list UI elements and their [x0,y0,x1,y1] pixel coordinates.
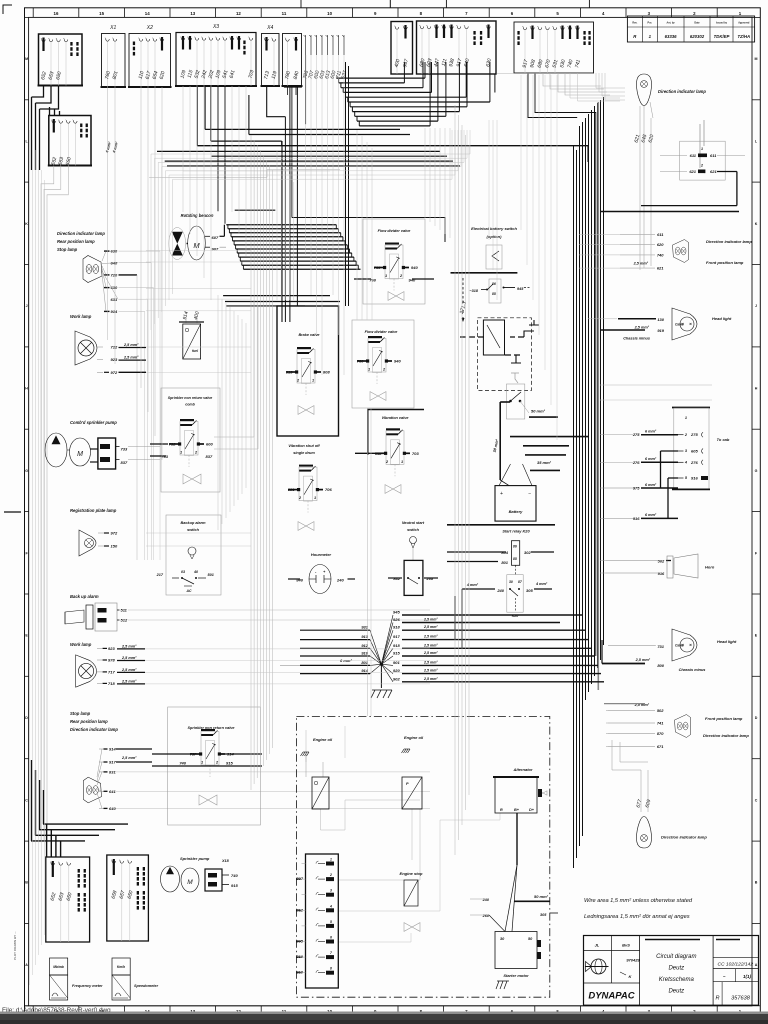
svg-text:2,5 mm²: 2,5 mm² [423,625,438,629]
svg-text:JL: JL [595,943,600,948]
starter motor [495,932,537,969]
svg-text:×: × [689,643,692,648]
black link under X4-B6 [284,86,302,88]
frequency meter box [50,958,68,975]
svg-text:972: 972 [111,531,118,536]
svg-text:Por.: Por. [648,22,653,25]
svg-text:3: 3 [330,889,332,893]
svg-text:Vibration shut off: Vibration shut off [288,444,320,448]
battery [495,486,536,521]
sprinkler non return valve bottom [168,707,261,825]
ruler top and bottom [32,8,34,18]
svg-text:2,5 mm²: 2,5 mm² [633,262,649,266]
grey verticals under B9 [424,128,426,218]
svg-text:J: J [26,304,28,308]
title block [584,936,759,1006]
svg-text:H: H [755,387,758,391]
svg-text:732: 732 [169,442,176,447]
svg-text:CC 102/122/142: CC 102/122/142 [717,961,753,967]
svg-text:Direction indicator lamp: Direction indicator lamp [658,89,706,94]
svg-text:978: 978 [108,658,115,663]
svg-text:671: 671 [657,744,664,749]
svg-text:03: 03 [181,570,185,574]
svg-text:2,5 mm²: 2,5 mm² [423,635,438,639]
svg-text:Sprinkler pump: Sprinkler pump [180,856,210,861]
svg-text:1: 1 [685,416,687,420]
svg-text:807: 807 [296,876,303,881]
svg-text:620302: 620302 [690,34,705,39]
centre mark top [389,0,391,8]
svg-text:800: 800 [657,663,664,668]
centre mark left [4,511,21,513]
svg-text:Km/h: Km/h [117,965,125,969]
svg-text:641: 641 [109,789,116,794]
svg-text:970429: 970429 [626,958,640,963]
svg-text:940: 940 [394,359,401,364]
engine box internal wires [305,730,307,762]
svg-text:918: 918 [393,643,400,648]
svg-text:Direction indicator lamp: Direction indicator lamp [57,231,105,236]
work lamp 2 [76,655,97,687]
svg-text:805: 805 [296,939,303,944]
svg-text:To cab: To cab [717,437,730,442]
connector block B1b (lower left) [49,116,91,166]
svg-text:2,5 mm²: 2,5 mm² [423,669,438,673]
svg-text:870: 870 [657,731,664,736]
svg-text:R: R [500,808,503,812]
svg-text:916: 916 [633,516,640,521]
direction indicator bottom right [637,817,652,849]
connector B6 [283,34,302,87]
svg-text:Engine stop: Engine stop [400,871,423,876]
svg-text:Head light: Head light [717,639,737,644]
head light lower wire [602,663,645,665]
svg-text:918: 918 [393,625,400,630]
svg-text:D: D [755,716,758,720]
svg-text:35 mm²: 35 mm² [537,460,552,465]
svg-text:Flow divider valve: Flow divider valve [378,229,411,233]
connector B10 [514,22,594,73]
svg-text:Ant. by: Ant. by [667,22,676,25]
head light lower [672,629,697,661]
svg-text:Engine oil: Engine oil [313,737,333,742]
svg-text:X4: X4 [266,25,273,31]
svg-text:837: 837 [206,454,213,459]
svg-text:Work lamp: Work lamp [70,314,92,319]
svg-text:915: 915 [226,761,233,766]
wire drops to diode box [703,120,705,146]
grey horizontals left [146,249,251,251]
svg-text:2,5 mm²: 2,5 mm² [121,668,137,672]
star node chassis [300,629,370,631]
wires from B1 down-left [32,86,44,98]
connector B8 [391,22,413,75]
svg-text:A: A [25,963,28,967]
bundle A staircase [336,77,425,79]
svg-text:14: 14 [145,11,150,16]
svg-text:63336: 63336 [665,34,678,39]
svg-text:1: 1 [401,460,403,464]
svg-text:718: 718 [108,681,115,686]
B6 pin drops [287,86,289,95]
svg-text:Direction indicator lamp: Direction indicator lamp [70,727,118,732]
svg-text:Front position lamp: Front position lamp [706,260,744,265]
svg-text:10: 10 [327,11,332,16]
svg-text:Direction indicator lamp: Direction indicator lamp [703,733,749,738]
svg-text:2,5 mm²: 2,5 mm² [423,618,438,622]
svg-text:Work lamp: Work lamp [70,642,92,647]
svg-text:902: 902 [393,676,400,681]
svg-text:217: 217 [156,573,164,577]
svg-text:Starter motor: Starter motor [503,973,529,978]
svg-text:×: × [689,322,692,327]
svg-text:706: 706 [325,487,332,492]
svg-text:2,5 mm²: 2,5 mm² [121,756,137,760]
svg-text:30: 30 [509,580,513,584]
svg-text:Neutral start: Neutral start [402,521,425,525]
svg-text:Kretsschema: Kretsschema [659,977,695,983]
svg-text:975: 975 [633,486,640,491]
svg-text:945: 945 [393,610,400,615]
svg-text:2,5 mm²: 2,5 mm² [121,644,137,648]
svg-text:C: C [25,798,28,802]
svg-text:512: 512 [121,618,128,623]
starter wiring [516,813,518,865]
svg-text:703: 703 [412,451,419,456]
svg-text:X3: X3 [212,24,219,30]
svg-text:16: 16 [54,11,59,16]
connector block B1 (rear frame) [39,34,83,86]
svg-text:972: 972 [111,370,118,375]
revision table [627,16,754,42]
svg-text:501: 501 [208,573,214,577]
svg-text:Rev.: Rev. [632,22,637,25]
svg-text:B: B [755,881,758,885]
svg-text:73F: 73F [190,752,197,757]
svg-text:5: 5 [330,920,332,924]
svg-text:Electrical battery switch: Electrical battery switch [471,226,517,231]
svg-text:12: 12 [236,11,241,16]
svg-text:85: 85 [492,292,496,296]
svg-text:Direction indicator lamp: Direction indicator lamp [706,239,752,244]
svg-text:2,5 mm²: 2,5 mm² [635,658,651,662]
svg-text:1: 1 [312,379,314,383]
svg-text:D+: D+ [529,808,535,812]
svg-text:85: 85 [513,557,517,561]
svg-text:X2: X2 [146,25,153,31]
svg-text:2,5 mm²: 2,5 mm² [121,656,137,660]
svg-text:760: 760 [374,265,381,270]
svg-text:760: 760 [369,278,376,283]
svg-text:926: 926 [393,617,400,622]
svg-text:M: M [755,57,758,61]
svg-text:Cable: Cable [675,323,684,327]
svg-text:J: J [755,304,757,308]
svg-text:G: G [25,469,28,473]
svg-text:1: 1 [385,274,387,278]
diode box 611-621 [680,141,726,180]
svg-text:812: 812 [296,907,303,912]
svg-text:AC: AC [186,589,192,593]
svg-text:Registration plate lamp: Registration plate lamp [70,508,117,513]
svg-text:919: 919 [657,328,664,333]
svg-text:310: 310 [296,954,303,959]
grey L mid [149,170,340,178]
svg-text:260: 260 [482,914,490,918]
svg-text:605: 605 [691,449,698,454]
svg-text:DYNAPAC: DYNAPAC [588,991,634,1002]
svg-text:150: 150 [111,544,118,549]
svg-text:2: 2 [700,164,703,168]
svg-text:Comb'd sprinkler pump: Comb'd sprinkler pump [70,420,117,425]
stop lamp group [83,777,101,803]
svg-text:6 mm²: 6 mm² [645,513,657,517]
svg-text:comb: comb [185,403,195,407]
svg-text:6: 6 [330,936,332,940]
svg-text:276: 276 [632,460,640,465]
svg-text:PLOT DRAWN BY ...: PLOT DRAWN BY ... [13,931,17,960]
connector X4 [262,34,280,87]
svg-text:915: 915 [231,883,238,888]
vibration valve [368,410,424,455]
flow divider valve 1 [363,219,425,304]
svg-text:C: C [755,798,758,802]
svg-text:945: 945 [517,287,524,291]
svg-text:50 mm²: 50 mm² [531,409,546,414]
svg-text:Cable: Cable [675,644,684,648]
svg-text:4 mm²: 4 mm² [466,583,479,587]
svg-text:840: 840 [296,578,303,583]
thick wire corner right [736,172,738,206]
svg-text:740: 740 [179,761,186,766]
svg-text:B: B [25,881,28,885]
svg-text:BvS: BvS [622,943,630,948]
svg-text:640: 640 [109,806,116,811]
svg-text:TZ/HA: TZ/HA [737,34,750,39]
svg-text:837: 837 [121,460,128,465]
svg-text:2: 2 [329,873,332,877]
svg-text:923: 923 [108,646,115,651]
svg-text:940: 940 [411,265,418,270]
svg-text:607: 607 [212,235,219,240]
direction indicator lamp top right [637,74,652,106]
connector B9 [417,21,497,74]
svg-text:760: 760 [357,359,364,364]
svg-text:914: 914 [111,309,118,314]
svg-text:M: M [25,57,28,61]
svg-text:Issued by: Issued by [716,22,728,25]
engine boundary [296,717,549,998]
svg-text:275: 275 [690,432,698,437]
grey rows right [579,233,655,235]
svg-text:50 mm²: 50 mm² [534,894,549,899]
svg-text:Backup alarm: Backup alarm [181,521,207,525]
connector X3 [176,33,256,87]
svg-text:1: 1 [330,858,332,862]
svg-text:Date: Date [694,22,700,25]
bundle D right verticals [573,146,575,868]
svg-text:Wire area 1,5 mm² unless other: Wire area 1,5 mm² unless otherwise state… [584,898,693,904]
svg-text:Deutz: Deutz [668,989,684,995]
svg-text:K20: K20 [512,614,519,618]
svg-text:+: + [500,491,503,497]
svg-text:712: 712 [111,345,118,350]
svg-text:130: 130 [657,317,664,322]
grey wire verticals [107,87,109,340]
svg-text:Frequency meter: Frequency meter [72,984,103,988]
speedometer box [112,958,130,975]
connector F1 (frequency meter) [46,857,90,942]
svg-text:2,5 mm²: 2,5 mm² [423,643,438,647]
connector F2 (speedometer) [107,855,149,941]
to cab connector [672,407,710,409]
svg-text:Battery: Battery [509,509,524,514]
ruler sides [25,16,29,18]
svg-text:620: 620 [657,242,664,247]
svg-text:6 mm²: 6 mm² [645,483,657,487]
svg-text:733: 733 [121,447,128,452]
svg-text:611: 611 [710,153,717,158]
svg-text:731: 731 [657,644,664,649]
svg-text:K: K [755,222,758,226]
svg-text:Flow divider valve: Flow divider valve [365,330,398,334]
svg-text:11: 11 [282,11,287,16]
svg-text:Speedometer: Speedometer [134,984,159,988]
wire stubs group B7 [305,35,307,55]
svg-text:916: 916 [658,571,665,576]
svg-text:502: 502 [658,559,665,564]
svg-text:X18: X18 [221,859,230,863]
front lamps right upper [673,240,689,263]
brake valve [277,306,339,436]
svg-text:621: 621 [657,266,664,271]
X3 pin drops [217,86,219,211]
head light right upper [672,308,697,340]
svg-text:A: A [755,963,758,967]
svg-text:1: 1 [180,451,182,455]
wires from B1b [41,166,54,841]
svg-text:Back up alarm: Back up alarm [70,594,99,599]
svg-text:240: 240 [496,588,504,593]
svg-text:G: G [755,469,758,473]
vertical wire x282 [281,141,283,322]
svg-text:D: D [25,716,28,720]
svg-text:4 mm²: 4 mm² [535,582,548,586]
svg-text:2,5 mm²: 2,5 mm² [423,660,438,664]
svg-text:913: 913 [286,370,293,375]
svg-text:916: 916 [691,476,698,481]
svg-text:Sprinkler non return valve: Sprinkler non return valve [168,396,213,400]
svg-text:917: 917 [393,634,400,639]
svg-text:Head light: Head light [712,316,732,321]
svg-text:Ledningsarea 1,5 mm² dör annat: Ledningsarea 1,5 mm² dör annat ej anges [584,914,690,920]
connector X1 [102,34,126,88]
svg-text:B+: B+ [514,808,520,812]
svg-text:931: 931 [288,487,295,492]
svg-text:switch: switch [407,528,419,532]
svg-text:−: − [528,491,531,497]
svg-text:741: 741 [657,721,664,726]
svg-text:720: 720 [111,273,118,278]
svg-text:2,5 mm²: 2,5 mm² [423,651,438,655]
svg-text:621: 621 [689,169,696,174]
combined sprinkler pump [45,433,67,467]
svg-text:8: 8 [330,967,332,971]
svg-text:1: 1 [368,368,370,372]
svg-text:276: 276 [690,460,698,465]
svg-text:Circuit diagram: Circuit diagram [656,954,696,960]
svg-text:1: 1 [314,496,316,500]
grey verticals right-mid [454,105,456,855]
8-pin engine connector [306,854,339,988]
front position lamps lower [675,715,691,738]
svg-text:717: 717 [108,670,115,675]
svg-text:Stop lamp: Stop lamp [57,247,78,252]
svg-text:R: R [716,996,720,1002]
svg-text:915: 915 [393,651,400,656]
svg-text:2,5 mm²: 2,5 mm² [423,677,438,681]
svg-text:fuel: fuel [192,349,198,353]
svg-text:502: 502 [657,708,664,713]
svg-text:740: 740 [231,873,238,878]
svg-text:305: 305 [540,913,547,917]
svg-text:Hourmeter: Hourmeter [311,552,332,557]
vertical pair x345 [345,62,347,306]
grey L-routes [151,130,470,330]
svg-text:4: 4 [329,904,332,908]
svg-text:Chassis minus: Chassis minus [679,668,706,672]
svg-text:940: 940 [409,278,416,283]
battery switch main contact [507,384,525,419]
svg-text:Stop lamp: Stop lamp [70,711,91,716]
svg-text:K: K [25,222,28,226]
bottom-left staircase [43,823,128,825]
svg-text:2,5 mm²: 2,5 mm² [634,325,650,329]
registration plate lamp [79,530,96,556]
wire corner x588 [574,145,589,147]
bundle B long horizontals [205,128,400,130]
svg-text:511: 511 [121,608,128,613]
svg-text:831: 831 [109,770,116,775]
svg-text:1: 1 [201,761,203,765]
svg-text:808: 808 [323,370,330,375]
svg-text:923: 923 [111,357,118,362]
svg-text:305: 305 [526,588,533,593]
svg-text:Vibration valve: Vibration valve [382,416,409,420]
svg-text:86: 86 [513,545,517,549]
work lamp 1 [75,331,97,365]
svg-text:6 mm²: 6 mm² [645,457,657,461]
svg-text:single drum: single drum [293,451,315,455]
svg-text:15: 15 [99,11,104,16]
svg-text:Alternator: Alternator [512,767,533,772]
svg-text:Rear position lamp: Rear position lamp [70,719,108,724]
svg-text:240: 240 [336,578,344,583]
svg-text:2,5 mm²: 2,5 mm² [121,679,137,683]
svg-text:13: 13 [190,11,195,16]
svg-text:M: M [77,451,83,458]
connector X2 [129,34,171,88]
svg-text:2,5 mm²: 2,5 mm² [123,356,139,360]
corner mark top-left [3,5,12,14]
svg-text:740: 740 [657,252,664,257]
svg-text:X1: X1 [109,25,116,31]
svg-text:6 mm²: 6 mm² [645,430,657,434]
svg-text:switch: switch [187,528,199,532]
svg-text:1: 1 [701,147,703,151]
svg-text:611: 611 [657,232,664,237]
battery switch relay dashed [478,318,532,391]
